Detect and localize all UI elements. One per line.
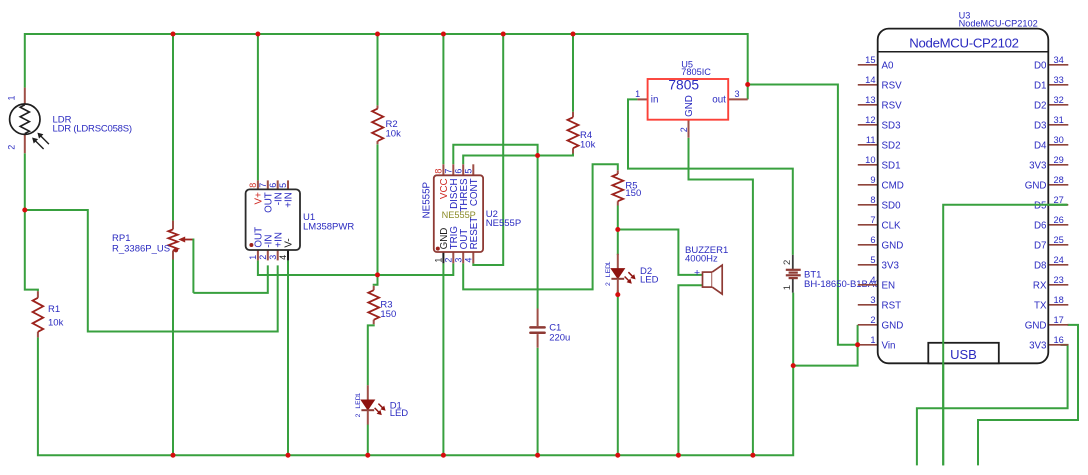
svg-text:NE555P: NE555P	[486, 218, 521, 229]
junction battery minus node	[791, 363, 796, 368]
svg-text:3: 3	[734, 89, 739, 99]
svg-text:16: 16	[1054, 335, 1064, 345]
wire rail to R4 top	[572, 34, 574, 112]
svg-text:7805IC: 7805IC	[681, 67, 711, 77]
junction LDR-R1 node	[22, 208, 27, 213]
junction GND rail D1	[365, 453, 370, 458]
svg-text:6: 6	[268, 183, 278, 188]
buzzer BUZZER1	[694, 265, 722, 294]
junction Vin node	[855, 342, 860, 347]
wire R3 bottom jog to D1 top	[368, 324, 374, 385]
svg-text:32: 32	[1054, 95, 1064, 105]
svg-text:10k: 10k	[48, 318, 64, 329]
svg-text:D7: D7	[1034, 240, 1047, 251]
op-amp U1	[246, 180, 300, 260]
svg-text:2: 2	[605, 282, 612, 286]
svg-text:D1: D1	[1034, 80, 1047, 91]
wire LDR bottom to R1 top	[25, 153, 38, 291]
junction 7805 out node	[745, 82, 750, 87]
svg-text:7: 7	[870, 215, 875, 225]
svg-text:A0: A0	[882, 60, 895, 71]
svg-text:17: 17	[1054, 315, 1064, 325]
svg-text:D2: D2	[1034, 100, 1047, 111]
svg-text:D4: D4	[1034, 140, 1047, 151]
svg-text:GND: GND	[1025, 320, 1047, 331]
wire node to C1 top	[537, 156, 539, 309]
svg-text:RSV: RSV	[882, 80, 903, 91]
junction rail-R2	[375, 32, 380, 37]
svg-text:CLK: CLK	[882, 220, 902, 231]
svg-text:3V3: 3V3	[882, 260, 900, 271]
svg-text:D8: D8	[1034, 260, 1047, 271]
svg-text:3V3: 3V3	[1029, 160, 1047, 171]
junction DISCH-THRES-C1 node	[535, 153, 540, 158]
svg-text:Vin: Vin	[882, 340, 896, 351]
LED D2	[605, 254, 636, 293]
svg-text:TX: TX	[1034, 300, 1047, 311]
wire NodeMCU 3V3 pin16	[917, 345, 1068, 466]
svg-text:1: 1	[635, 89, 640, 99]
wire rail to RP1 top	[172, 34, 174, 221]
wire D1 bottom to GND rail	[367, 425, 369, 456]
wire node to R3 top jog	[374, 275, 378, 286]
svg-text:GND: GND	[882, 240, 904, 251]
svg-text:1: 1	[7, 95, 17, 100]
wire LDR divider node to U1 +IN	[25, 210, 278, 332]
wire NodeMCU D5 pin27	[943, 205, 1067, 466]
svg-text:LED: LED	[355, 395, 362, 408]
svg-text:220u: 220u	[549, 333, 570, 344]
svg-text:4: 4	[464, 258, 474, 263]
svg-text:9: 9	[870, 175, 875, 185]
svg-text:26: 26	[1054, 215, 1064, 225]
resistor R3	[368, 286, 379, 324]
wire U1 V- pin4 to GND rail	[287, 260, 289, 455]
battery BT1	[782, 255, 801, 293]
svg-text:2: 2	[444, 258, 454, 263]
svg-text:SD3: SD3	[882, 120, 902, 131]
wire U1 OUT to R2/R3 node to U2 TRIG	[258, 260, 453, 275]
svg-text:150: 150	[625, 188, 641, 199]
resistor R1	[33, 291, 44, 337]
junction D2 cathode node	[615, 292, 620, 297]
wire R5 bottom to D2 anode node	[617, 206, 619, 256]
junction GND rail D2	[615, 453, 620, 458]
svg-text:10: 10	[865, 155, 875, 165]
svg-text:+: +	[694, 267, 700, 279]
resistor R4	[568, 112, 579, 154]
svg-text:2: 2	[679, 127, 689, 132]
svg-text:1: 1	[434, 258, 444, 263]
svg-text:4000Hz: 4000Hz	[685, 253, 718, 264]
wire 7805 out to NodeMCU Vin	[748, 85, 858, 345]
svg-text:4: 4	[278, 255, 288, 260]
wire RP1 bottom to GND rail	[172, 260, 174, 456]
svg-text:23: 23	[1054, 275, 1064, 285]
wire U2 THRES pin6 to R4 bottom	[463, 154, 573, 165]
svg-text:USB: USB	[950, 347, 977, 362]
svg-text:7805: 7805	[668, 78, 699, 93]
svg-text:out: out	[712, 94, 726, 105]
junction rail-U2 VCC	[441, 32, 446, 37]
wire NodeMCU GND pin17	[978, 325, 1078, 466]
svg-text:6: 6	[453, 169, 463, 174]
svg-text:10k: 10k	[580, 139, 596, 150]
wire U2 DISCH pin7 to node	[453, 145, 537, 165]
svg-text:LED: LED	[640, 274, 659, 285]
timer U2	[422, 164, 483, 263]
svg-text:24: 24	[1054, 255, 1064, 265]
svg-text:SD0: SD0	[882, 200, 902, 211]
junction GND rail 7805	[750, 453, 755, 458]
svg-text:4: 4	[870, 275, 875, 285]
photoresistor LDR	[7, 88, 49, 154]
regulator U5 7805	[635, 78, 748, 138]
wire U2 GND pin1 to GND rail	[442, 263, 444, 455]
svg-text:RESET: RESET	[469, 217, 480, 250]
wire rail to R2 top	[377, 34, 379, 105]
resistor R5	[612, 170, 623, 205]
junction GND rail U1 V-	[286, 453, 291, 458]
svg-text:29: 29	[1054, 155, 1064, 165]
svg-text:RST: RST	[882, 300, 902, 311]
svg-text:D6: D6	[1034, 220, 1047, 231]
svg-text:CONT: CONT	[469, 178, 480, 206]
USB connector	[928, 343, 999, 364]
resistor R2	[372, 105, 383, 144]
svg-text:NE555P: NE555P	[422, 181, 433, 218]
svg-text:1: 1	[782, 285, 793, 290]
junction R2-R3-TRIG node	[375, 272, 380, 277]
wire top VCC rail	[25, 34, 748, 99]
svg-text:NodeMCU-CP2102: NodeMCU-CP2102	[959, 18, 1038, 28]
wire rail to U2 VCC pin8	[442, 34, 444, 164]
LED D1	[355, 385, 386, 424]
svg-text:14: 14	[865, 75, 875, 85]
svg-text:25: 25	[1054, 235, 1064, 245]
wire D2 node to buzzer plus	[618, 230, 703, 275]
svg-text:D3: D3	[1034, 120, 1047, 131]
svg-text:2: 2	[355, 413, 362, 417]
svg-text:8: 8	[434, 169, 444, 174]
svg-text:EN: EN	[882, 280, 896, 291]
svg-text:+IN: +IN	[284, 192, 295, 208]
junction GND rail U2 GND	[441, 453, 446, 458]
svg-text:33: 33	[1054, 75, 1064, 85]
svg-text:8: 8	[870, 195, 875, 205]
wire 7805 GND pin2 to GND rail	[689, 138, 753, 456]
svg-text:D0: D0	[1034, 60, 1047, 71]
svg-text:RX: RX	[1033, 280, 1047, 291]
svg-text:RSV: RSV	[882, 100, 903, 111]
svg-text:R1: R1	[48, 304, 60, 315]
svg-text:34: 34	[1054, 55, 1064, 65]
wire D2 cathode to GND rail	[617, 290, 619, 455]
svg-text:LED: LED	[390, 408, 409, 419]
wire D5 over board redraw	[943, 205, 1067, 466]
svg-text:2: 2	[870, 315, 875, 325]
svg-text:SD2: SD2	[882, 140, 901, 151]
wire 7805 in to battery plus	[628, 99, 793, 255]
svg-text:7: 7	[258, 183, 268, 188]
svg-text:30: 30	[1054, 135, 1064, 145]
dev board U3 NodeMCU-CP2102	[858, 29, 1069, 364]
svg-text:V-: V-	[284, 238, 295, 247]
svg-text:150: 150	[380, 309, 396, 320]
wire RP1 wiper to U1 -IN	[193, 265, 267, 293]
svg-text:GND: GND	[882, 320, 904, 331]
svg-text:15: 15	[865, 55, 875, 65]
svg-text:LM358PWR: LM358PWR	[303, 222, 354, 233]
junction GND rail buzzer	[676, 453, 681, 458]
svg-text:31: 31	[1054, 115, 1064, 125]
svg-text:7: 7	[444, 169, 454, 174]
svg-text:3: 3	[870, 295, 875, 305]
svg-text:GND: GND	[684, 95, 695, 117]
svg-text:5: 5	[464, 169, 474, 174]
wire rail to U1 V+ pin8	[257, 34, 259, 180]
svg-text:18: 18	[1054, 295, 1064, 305]
junction GND rail C1	[535, 453, 540, 458]
capacitor C1	[530, 309, 544, 348]
wire R2 bottom to node	[377, 144, 379, 275]
svg-text:12: 12	[865, 115, 875, 125]
svg-text:10k: 10k	[386, 128, 402, 139]
svg-text:8: 8	[248, 183, 258, 188]
svg-text:11: 11	[866, 135, 876, 145]
svg-text:5: 5	[278, 183, 288, 188]
wire U2 RESET pin4 to rail riser	[473, 34, 503, 265]
svg-text:NodeMCU-CP2102: NodeMCU-CP2102	[909, 36, 1018, 51]
svg-text:28: 28	[1054, 175, 1064, 185]
junction rail-R4	[571, 32, 576, 37]
wire U2 OUT pin3 to R5 top	[463, 164, 618, 289]
svg-text:1: 1	[870, 335, 875, 345]
svg-text:in: in	[651, 94, 659, 105]
svg-text:2: 2	[258, 255, 268, 260]
svg-text:5: 5	[870, 255, 875, 265]
svg-text:3: 3	[453, 258, 463, 263]
svg-text:GND: GND	[1025, 180, 1047, 191]
junction rail-RP1	[171, 32, 176, 37]
svg-text:D5: D5	[1034, 200, 1047, 211]
svg-text:LDR (LDRSC058S): LDR (LDRSC058S)	[53, 124, 132, 135]
svg-text:27: 27	[1054, 195, 1064, 205]
svg-text:2: 2	[7, 145, 17, 150]
svg-text:CMD: CMD	[882, 180, 904, 191]
svg-text:2: 2	[782, 260, 793, 265]
svg-text:13: 13	[865, 95, 875, 105]
junction rail-RESET riser	[501, 32, 506, 37]
svg-text:SD1: SD1	[882, 160, 901, 171]
junction R5-D2-buzzer node	[615, 227, 620, 232]
wire buzzer minus to GND rail	[678, 285, 702, 455]
wire R1 bottom / bottom GND rail / battery minus riser	[38, 293, 793, 456]
potentiometer RP1	[168, 221, 193, 293]
svg-text:3: 3	[268, 255, 278, 260]
junction rail-U1 V+	[255, 32, 260, 37]
svg-text:R_3386P_US: R_3386P_US	[112, 243, 170, 254]
svg-text:3V3: 3V3	[1029, 340, 1047, 351]
svg-text:LED: LED	[605, 264, 612, 277]
svg-text:1: 1	[248, 255, 258, 260]
svg-text:NE555P: NE555P	[442, 210, 476, 220]
wire C1 bottom to GND rail	[537, 348, 539, 456]
junction GND rail RP1	[171, 453, 176, 458]
wire battery minus to NodeMCU GND pin2	[793, 325, 857, 366]
svg-text:6: 6	[870, 235, 875, 245]
